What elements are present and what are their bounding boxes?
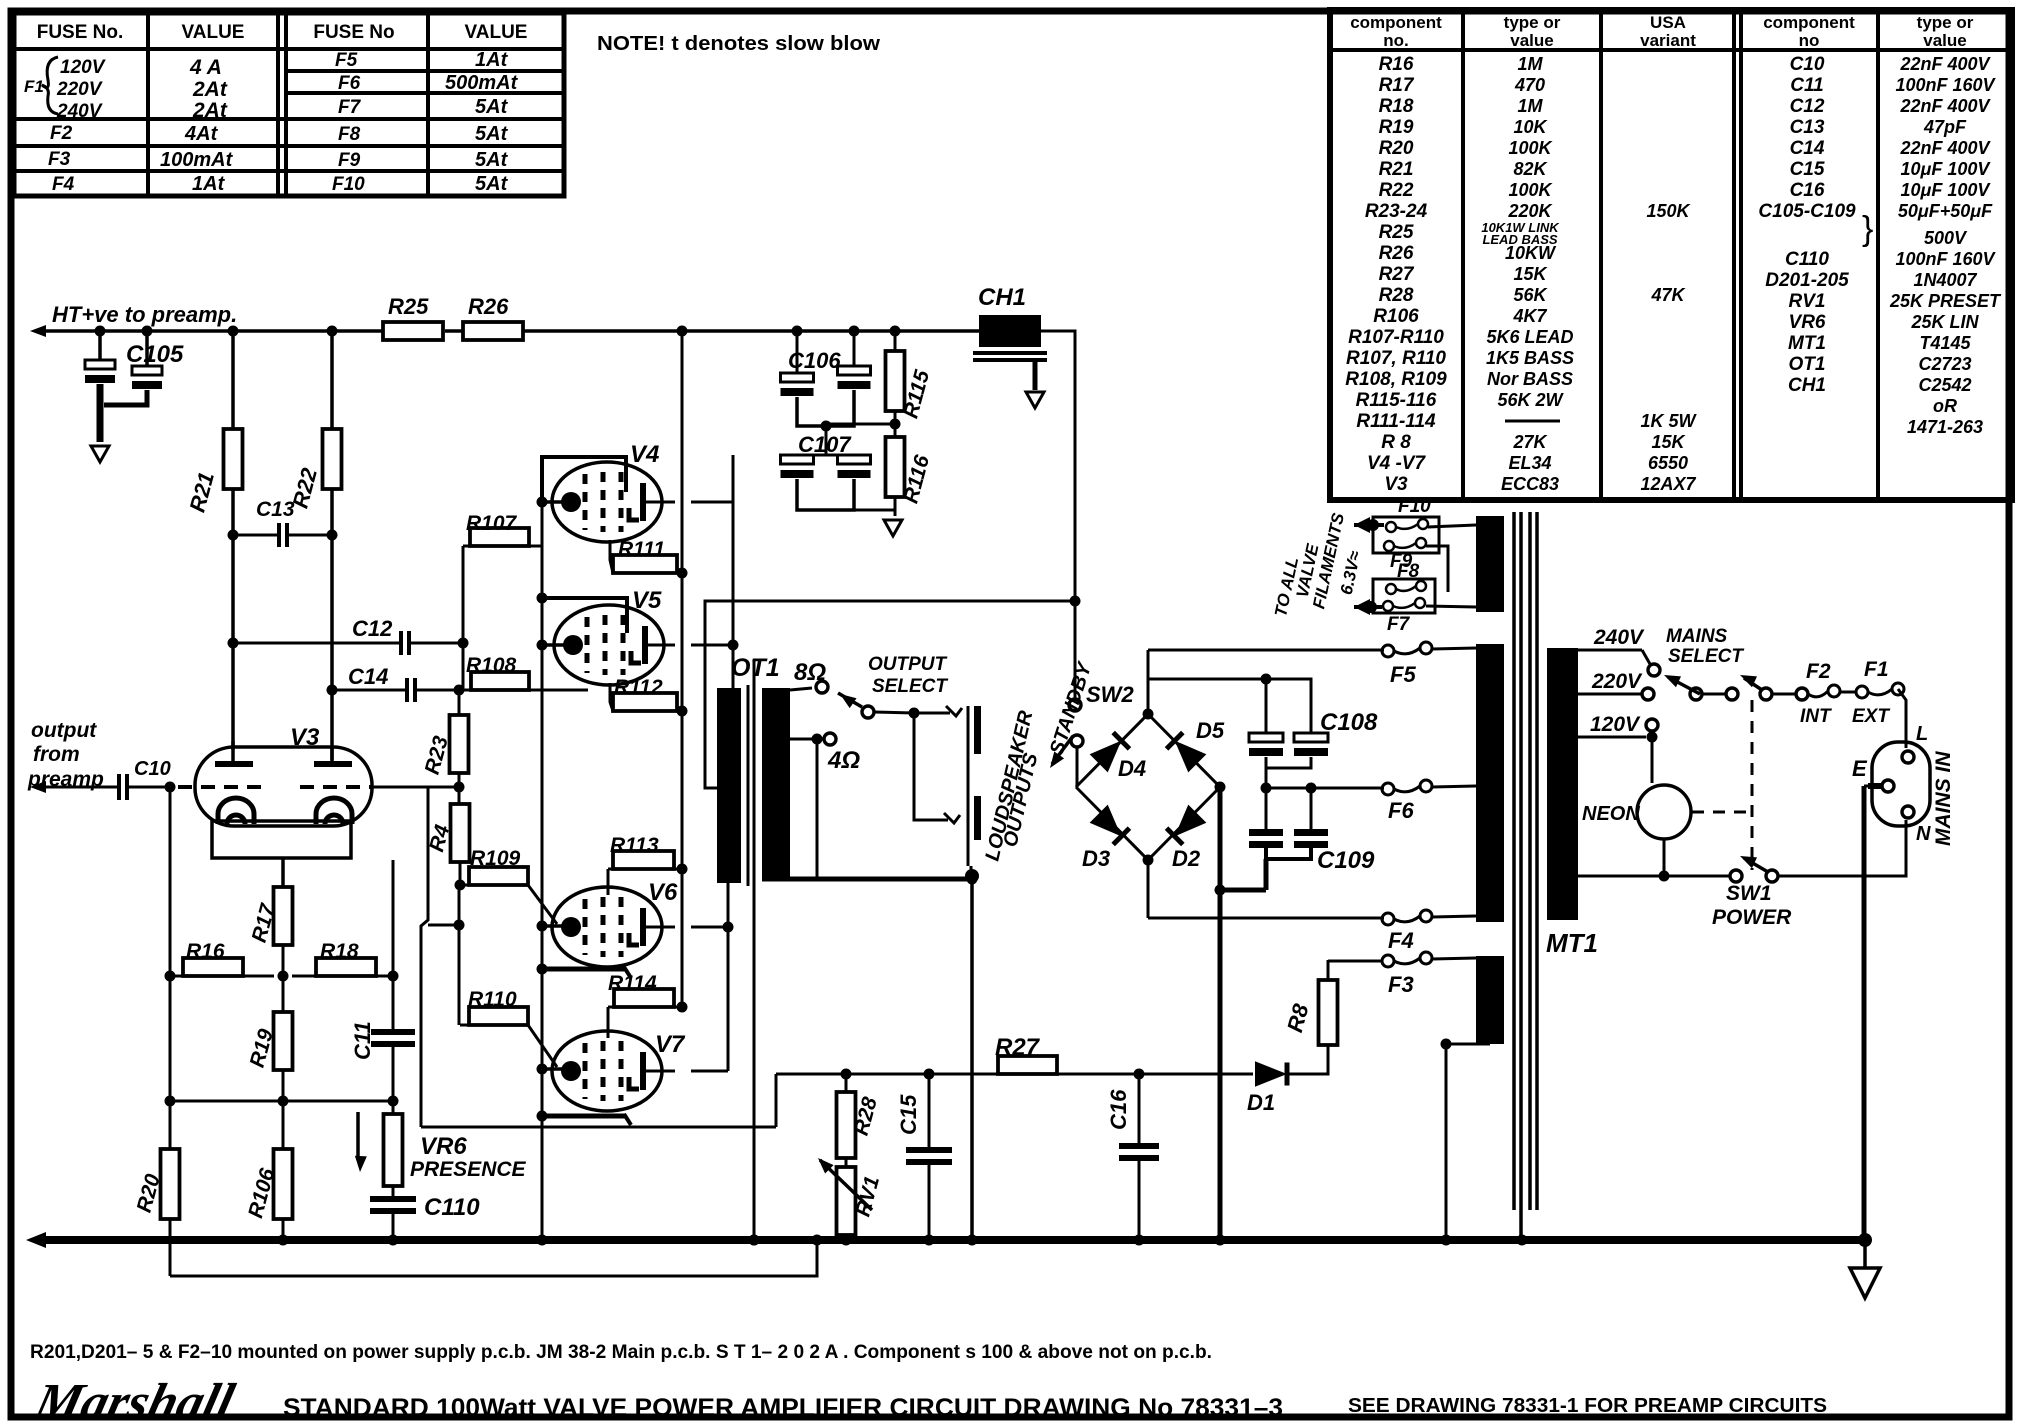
- svg-text:1M: 1M: [1517, 96, 1543, 116]
- svg-text:2At: 2At: [192, 78, 228, 101]
- svg-text:500V: 500V: [1924, 228, 1968, 248]
- svg-text:100nF 160V: 100nF 160V: [1895, 249, 1996, 269]
- label output from preamp: [27, 719, 104, 791]
- svg-text:C14: C14: [1790, 138, 1825, 159]
- transformer MT1 left winding: [1476, 516, 1504, 1044]
- resistor R114: [608, 972, 688, 1038]
- svg-text:R108, R109: R108, R109: [1345, 369, 1447, 390]
- svg-text:8Ω: 8Ω: [794, 659, 826, 686]
- wire R21 top: [228, 326, 239, 430]
- svg-text:T4145: T4145: [1919, 333, 1971, 353]
- resistor R106: [244, 1101, 292, 1246]
- svg-text:component: component: [1350, 13, 1442, 32]
- svg-text:56K: 56K: [1513, 285, 1548, 305]
- svg-text:value: value: [1923, 31, 1966, 50]
- svg-text:F6: F6: [338, 73, 361, 94]
- label to all valve filaments: [1271, 511, 1365, 619]
- svg-text:V3: V3: [1384, 474, 1408, 495]
- node 8 ohm tap: [790, 659, 828, 693]
- svg-text:C14: C14: [348, 664, 388, 689]
- svg-text:V4 -V7: V4 -V7: [1367, 453, 1427, 474]
- resistor R8: [1282, 960, 1337, 1045]
- svg-text:D5: D5: [1196, 718, 1225, 743]
- capacitor C109: [1249, 788, 1375, 890]
- wire 120V tap: [1578, 713, 1658, 783]
- svg-text:C16: C16: [1790, 180, 1825, 201]
- svg-text:4At: 4At: [184, 123, 219, 145]
- svg-text:220K: 220K: [1507, 201, 1553, 221]
- svg-text:F4: F4: [52, 174, 75, 195]
- svg-text:10μF 100V: 10μF 100V: [1901, 180, 1992, 200]
- svg-text:R114: R114: [608, 972, 657, 995]
- svg-text:NEON: NEON: [1582, 803, 1640, 825]
- wire F6 line: [1266, 787, 1384, 790]
- switch SW1: [1578, 856, 1792, 929]
- wire V4 grid hat: [542, 457, 626, 502]
- svg-text:MAINS: MAINS: [1666, 626, 1728, 647]
- wire cathode return: [421, 1074, 776, 1127]
- svg-text:SELECT: SELECT: [1668, 646, 1744, 667]
- svg-text:4K7: 4K7: [1512, 306, 1547, 326]
- svg-text:V4: V4: [630, 441, 659, 468]
- wire R4-R110 column: [458, 885, 461, 1025]
- fuse F4: [1382, 910, 1432, 953]
- svg-text:R25: R25: [388, 294, 429, 319]
- svg-text:R107: R107: [466, 512, 518, 535]
- svg-text:25K LIN: 25K LIN: [1910, 312, 1979, 332]
- svg-text:C11: C11: [350, 1021, 375, 1060]
- svg-text:F10: F10: [1398, 496, 1431, 517]
- svg-text:POWER: POWER: [1712, 906, 1792, 929]
- neon lamp: [1582, 785, 1691, 882]
- svg-text:56K 2W: 56K 2W: [1497, 390, 1564, 410]
- fuse F5: [1382, 642, 1432, 687]
- svg-text:5At: 5At: [475, 173, 509, 195]
- capacitor C16: [1106, 1074, 1159, 1240]
- svg-text:C110: C110: [1785, 249, 1829, 270]
- svg-text:oR: oR: [1933, 396, 1957, 416]
- svg-text:}: }: [1862, 210, 1873, 248]
- svg-text:C10: C10: [134, 758, 171, 780]
- ground bus: [26, 1232, 1872, 1248]
- svg-text:NOTE! t denotes slow blow: NOTE! t denotes slow blow: [597, 33, 880, 55]
- dashed link: [1692, 700, 1752, 870]
- svg-text:F8: F8: [1397, 561, 1420, 582]
- svg-text:R19: R19: [1379, 117, 1414, 138]
- label output select: [868, 654, 948, 697]
- wire V4 grid lead: [537, 497, 567, 508]
- svg-text:MT1: MT1: [1546, 928, 1598, 958]
- svg-text:R113: R113: [610, 834, 659, 857]
- pentode V6: [552, 879, 678, 967]
- resistor R116: [854, 437, 934, 536]
- svg-text:F7: F7: [1387, 614, 1411, 635]
- fuse box F10 F9: [1373, 496, 1439, 572]
- svg-text:100mAt: 100mAt: [160, 149, 234, 171]
- wire V6 cathode lead: [537, 964, 632, 979]
- svg-text:FUSE No: FUSE No: [313, 22, 394, 43]
- transformer OT1 secondary: [762, 688, 790, 879]
- svg-text:5At: 5At: [475, 123, 509, 145]
- svg-text:F4: F4: [1388, 928, 1414, 953]
- svg-text:F2: F2: [1806, 660, 1831, 683]
- svg-text:SW1: SW1: [1726, 882, 1772, 905]
- wire V5 grid hat: [537, 593, 628, 634]
- svg-text:V3: V3: [290, 724, 320, 751]
- node 4 ohm tap: [790, 733, 860, 879]
- svg-text:N: N: [1916, 823, 1931, 845]
- wire OT1 secondary bottom: [762, 874, 978, 1241]
- svg-text:D3: D3: [1082, 846, 1110, 871]
- switch mains select arm: [1664, 675, 1738, 700]
- svg-text:ECC83: ECC83: [1501, 474, 1559, 494]
- title: [283, 1394, 1283, 1422]
- resistor R18: [292, 940, 399, 982]
- component table grid: [1330, 10, 2012, 500]
- wire 220V tap: [1578, 670, 1654, 700]
- pentode V4: [552, 441, 662, 542]
- potentiometer RV1: [818, 1158, 884, 1240]
- svg-text:V7: V7: [655, 1031, 686, 1058]
- svg-text:R110: R110: [468, 988, 517, 1011]
- svg-text:470: 470: [1514, 75, 1545, 95]
- svg-text:R 8: R 8: [1381, 432, 1411, 453]
- resistor R112: [610, 676, 688, 717]
- pcb note: [30, 1342, 1212, 1363]
- wire 240V tap: [1578, 626, 1660, 676]
- wire screen column: [677, 326, 688, 1008]
- svg-text:no.: no.: [1383, 31, 1409, 50]
- svg-text:type or: type or: [1917, 13, 1974, 32]
- svg-text:R21: R21: [1379, 159, 1414, 180]
- svg-text:D201-205: D201-205: [1765, 270, 1849, 291]
- svg-text:OT1: OT1: [1789, 354, 1826, 375]
- diode D5: [1167, 718, 1225, 772]
- svg-text:15K: 15K: [1513, 264, 1548, 284]
- wire V6 anode: [644, 922, 734, 933]
- capacitor C108: [1249, 709, 1378, 768]
- svg-text:C110: C110: [424, 1194, 480, 1221]
- svg-text:F9: F9: [338, 150, 361, 171]
- wire V7 anode: [644, 1070, 728, 1073]
- wire C10 column: [165, 787, 176, 1101]
- svg-text:R107, R110: R107, R110: [1346, 348, 1446, 369]
- wire R22-C13-C14-V3: [327, 489, 338, 760]
- svg-text:R18: R18: [320, 940, 359, 963]
- svg-text:MAINS IN: MAINS IN: [1932, 751, 1955, 846]
- label mains select: [1666, 626, 1744, 667]
- component table left rows: [1345, 54, 1697, 495]
- resistor R4: [425, 787, 469, 891]
- note text: [597, 33, 880, 55]
- svg-text:C15: C15: [1790, 159, 1825, 180]
- svg-text:SW2: SW2: [1086, 682, 1134, 707]
- label OT1: [731, 654, 780, 682]
- svg-text:F3: F3: [1388, 972, 1414, 997]
- wire V5 anode: [645, 640, 739, 651]
- svg-text:22nF 400V: 22nF 400V: [1899, 96, 1991, 116]
- svg-text:F5: F5: [1390, 662, 1416, 687]
- svg-text:Nor BASS: Nor BASS: [1487, 369, 1573, 389]
- svg-text:F3: F3: [48, 149, 71, 170]
- svg-text:C105: C105: [126, 341, 184, 368]
- wire grid column: [537, 457, 548, 1246]
- svg-text:R16: R16: [1379, 54, 1414, 75]
- svg-text:CH1: CH1: [1788, 375, 1826, 396]
- fuse table values: [24, 49, 519, 195]
- wire F5 F6 F4 to MT1: [1432, 648, 1476, 917]
- svg-text:R18: R18: [1379, 96, 1414, 117]
- wire R18 column: [392, 860, 395, 1032]
- transformer OT1 core: [748, 660, 760, 1246]
- diode D4: [1090, 733, 1146, 781]
- label mains in: [1932, 751, 1955, 846]
- svg-text:E: E: [1852, 756, 1868, 781]
- svg-text:500mAt: 500mAt: [445, 72, 519, 94]
- svg-text:SEE DRAWING 78331-1 FOR PR: SEE DRAWING 78331-1 FOR PREAMP CIRCUITS: [1348, 1395, 1827, 1417]
- svg-text:F1: F1: [24, 77, 44, 96]
- svg-text:50μF+50μF: 50μF+50μF: [1898, 201, 1993, 221]
- svg-text:HT+ve to preamp.: HT+ve to preamp.: [52, 302, 237, 327]
- svg-text:150K: 150K: [1646, 201, 1691, 221]
- svg-text:F5: F5: [335, 50, 358, 71]
- svg-text:VALUE: VALUE: [182, 22, 245, 43]
- svg-text:CH1: CH1: [978, 284, 1026, 311]
- wire E to ground: [1864, 786, 1868, 1240]
- svg-text:F6: F6: [1388, 798, 1414, 823]
- svg-text:120V: 120V: [60, 57, 106, 78]
- resistor R25: [383, 294, 443, 340]
- see drawing note: [1348, 1395, 1827, 1417]
- svg-text:22nF 400V: 22nF 400V: [1899, 54, 1991, 74]
- svg-text:10K: 10K: [1513, 117, 1548, 137]
- diode D3: [1082, 805, 1129, 871]
- svg-text:USA: USA: [1650, 13, 1686, 32]
- svg-text:R26: R26: [1379, 243, 1414, 264]
- svg-text:V5: V5: [632, 587, 662, 614]
- svg-text:C108: C108: [1320, 709, 1378, 736]
- wire C108 bottom to F6 node: [1261, 768, 1317, 794]
- wire gnd row: [165, 1096, 394, 1107]
- svg-text:1At: 1At: [192, 173, 226, 195]
- loudspeaker jacks: [965, 706, 981, 883]
- svg-text:variant: variant: [1640, 31, 1696, 50]
- svg-text:R106: R106: [1373, 306, 1419, 327]
- wire V4 anode: [644, 501, 733, 504]
- component table right rows: [1758, 54, 2002, 437]
- svg-text:RV1: RV1: [1789, 291, 1826, 312]
- svg-text:R20: R20: [1379, 138, 1414, 159]
- svg-text:R201,D201– 5 & F2–10 mounted: R201,D201– 5 & F2–10 mounted on power su…: [30, 1342, 1212, 1363]
- switch SW2: [1050, 682, 1134, 787]
- capacitor C12: [233, 616, 463, 655]
- svg-text:F1: F1: [1864, 658, 1889, 681]
- pentode V7: [552, 1031, 686, 1111]
- svg-text:PRESENCE: PRESENCE: [410, 1158, 527, 1181]
- fuse F2: [1796, 660, 1840, 727]
- svg-text:type or: type or: [1504, 13, 1561, 32]
- svg-text:output: output: [31, 719, 97, 742]
- wire C108 top node: [1148, 674, 1311, 734]
- svg-text:6550: 6550: [1648, 453, 1688, 473]
- wire V5 grid lead: [537, 640, 567, 651]
- svg-text:47K: 47K: [1650, 285, 1686, 305]
- svg-text:R28: R28: [1379, 285, 1414, 306]
- resistor R21: [184, 429, 242, 515]
- svg-text:R109: R109: [470, 847, 521, 870]
- svg-text:C16: C16: [1106, 1089, 1131, 1130]
- fuse F3: [1328, 952, 1476, 997]
- svg-text:R16: R16: [186, 940, 225, 963]
- svg-text:1N4007: 1N4007: [1913, 270, 1977, 290]
- transformer OT1 primary: [717, 688, 741, 883]
- fuse F6: [1382, 780, 1432, 823]
- transformer MT1 primary: [1547, 648, 1578, 920]
- resistor R108: [463, 654, 588, 690]
- resistor R28: [837, 1074, 882, 1167]
- transformer MT1 core: [1514, 512, 1537, 1240]
- diode D1: [1139, 1045, 1328, 1115]
- wire bridge top to F5: [1148, 650, 1384, 714]
- svg-text:EL34: EL34: [1508, 453, 1551, 473]
- svg-text:82K: 82K: [1513, 159, 1548, 179]
- resistor R16: [170, 940, 289, 982]
- svg-text:D1: D1: [1247, 1090, 1275, 1115]
- resistor R115: [826, 331, 934, 437]
- wire R21-C13-C12-V3: [228, 489, 239, 750]
- svg-text:value: value: [1510, 31, 1553, 50]
- svg-text:C106: C106: [788, 348, 841, 373]
- wire bridge right column: [1215, 787, 1267, 1240]
- capacitor C11: [350, 1021, 415, 1106]
- svg-text:C109: C109: [1317, 847, 1375, 874]
- svg-text:C11: C11: [1790, 75, 1823, 96]
- svg-text:FUSE No.: FUSE No.: [37, 22, 124, 43]
- svg-text:VR6: VR6: [420, 1133, 467, 1160]
- resistor R17: [248, 887, 293, 1012]
- svg-text:C105-C109: C105-C109: [1758, 201, 1856, 222]
- svg-text:R108: R108: [466, 654, 517, 677]
- potentiometer VR6: [355, 1101, 527, 1186]
- svg-text:5At: 5At: [475, 96, 509, 118]
- wire select to jacks: [914, 706, 962, 823]
- svg-text:47pF: 47pF: [1923, 117, 1967, 137]
- svg-text:C13: C13: [256, 498, 295, 521]
- triode V3: [178, 724, 372, 887]
- resistor R109: [460, 847, 557, 924]
- wire R22 top: [327, 326, 338, 430]
- resistor R27: [995, 1034, 1057, 1074]
- mains connector: [1852, 723, 1931, 845]
- fuse table headers: [37, 22, 528, 43]
- svg-text:OUTPUT: OUTPUT: [868, 654, 948, 675]
- svg-text:F10: F10: [332, 174, 365, 195]
- svg-text:INT: INT: [1800, 706, 1832, 727]
- svg-text:R27: R27: [1379, 264, 1415, 285]
- wire rail caps junctions: [792, 326, 901, 337]
- svg-text:Marshall: Marshall: [28, 1374, 240, 1426]
- wire F1 to L pin: [1898, 689, 1906, 748]
- svg-text:27K: 27K: [1512, 432, 1548, 452]
- svg-text:SELECT: SELECT: [872, 676, 948, 697]
- wire V7 grid lead: [537, 1064, 567, 1075]
- svg-text:240V: 240V: [1593, 626, 1645, 649]
- svg-text:component: component: [1763, 13, 1855, 32]
- resistor R113: [608, 834, 688, 895]
- capacitor C15: [896, 1074, 952, 1240]
- resistor R111: [610, 538, 688, 579]
- svg-text:R17: R17: [1379, 75, 1415, 96]
- resistor R19: [246, 1012, 293, 1107]
- resistor R23: [421, 690, 469, 787]
- wire F2 F1: [1840, 691, 1856, 694]
- svg-text:4 A: 4 A: [189, 56, 222, 79]
- resistor R107: [463, 512, 542, 643]
- svg-text:C2542: C2542: [1918, 375, 1971, 395]
- label standby: [1046, 659, 1097, 758]
- svg-text:LEAD BASS: LEAD BASS: [1482, 232, 1557, 247]
- wire HT to OT1 centre: [705, 596, 1081, 789]
- fuse table grid: [13, 11, 564, 196]
- svg-text:10μF 100V: 10μF 100V: [1901, 159, 1992, 179]
- wire anode to OT1 top: [732, 455, 735, 688]
- svg-text:C10: C10: [1790, 54, 1825, 75]
- svg-text:240V: 240V: [56, 101, 103, 122]
- capacitor C105: [85, 326, 184, 463]
- svg-text:C15: C15: [896, 1094, 921, 1135]
- svg-text:L: L: [1916, 723, 1928, 745]
- svg-text:C107: C107: [798, 432, 852, 457]
- svg-text:2At: 2At: [192, 99, 228, 122]
- switch output select: [838, 693, 920, 719]
- svg-text:C13: C13: [1790, 117, 1825, 138]
- svg-text:R111-114: R111-114: [1356, 411, 1436, 432]
- resistor R22: [287, 429, 341, 511]
- label loudspeaker outputs: [981, 708, 1042, 863]
- svg-text:220V: 220V: [1591, 670, 1643, 693]
- svg-text:1K5 BASS: 1K5 BASS: [1486, 348, 1574, 368]
- choke CH1: [973, 284, 1047, 360]
- svg-text:V6: V6: [648, 879, 678, 906]
- label MT1: [1546, 928, 1598, 958]
- svg-text:VALUE: VALUE: [465, 22, 528, 43]
- svg-text:from: from: [33, 743, 80, 766]
- resistor R20: [133, 1101, 180, 1240]
- wire CH1 to SW2: [1041, 331, 1075, 698]
- svg-text:22nF 400V: 22nF 400V: [1899, 138, 1991, 158]
- capacitor C14: [332, 664, 465, 702]
- capacitor C10: [30, 758, 176, 800]
- svg-text:R111: R111: [618, 538, 665, 561]
- svg-text:R26: R26: [468, 294, 509, 319]
- svg-text:F2: F2: [50, 123, 73, 144]
- wire V3 grid2 to node: [372, 782, 465, 793]
- wire V7 cathode lead: [537, 1111, 632, 1126]
- wire filament fuses to MT1: [1426, 525, 1476, 607]
- fuse box F8 F7: [1373, 561, 1435, 635]
- svg-text:100K: 100K: [1508, 180, 1553, 200]
- svg-text:1M: 1M: [1517, 54, 1543, 74]
- svg-text:OT1: OT1: [731, 654, 780, 682]
- svg-text:F8: F8: [338, 124, 361, 145]
- svg-text:VR6: VR6: [1789, 312, 1826, 333]
- svg-text:120V: 120V: [1590, 713, 1641, 736]
- filament arrows: [1354, 517, 1384, 615]
- svg-text:1471-263: 1471-263: [1907, 417, 1983, 437]
- svg-text:5K6 LEAD: 5K6 LEAD: [1486, 327, 1573, 347]
- svg-text:15K: 15K: [1651, 432, 1686, 452]
- wire bridge bottom to F4: [1148, 860, 1384, 918]
